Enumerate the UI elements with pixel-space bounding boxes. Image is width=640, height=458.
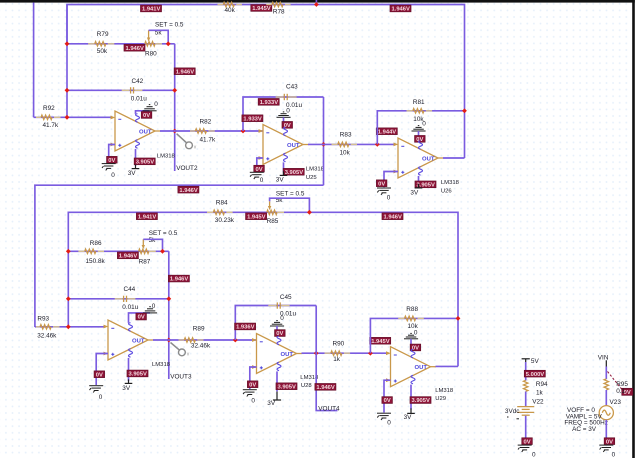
bias label 5.000V	[524, 370, 545, 378]
wire U29 output to feedback vertical	[436, 365, 459, 367]
svg-text:0V: 0V	[606, 439, 613, 445]
bias label 3.905V (U28 V-)	[276, 383, 297, 391]
svg-text:5k: 5k	[149, 237, 157, 244]
svg-text:0: 0	[280, 315, 284, 322]
ground 0 (s2op1 +input)	[89, 386, 103, 401]
svg-text:0: 0	[99, 394, 103, 401]
top window border	[0, 0, 635, 3]
node junction x67 R79 row	[65, 41, 70, 46]
node junction R88 right / feedback	[456, 316, 461, 321]
bias label 3.905V (U26 V-)	[415, 181, 436, 189]
wire s2op1 out to U28 row	[153, 339, 257, 341]
svg-text:C45: C45	[280, 294, 292, 301]
wire U25 V- to 3V	[283, 162, 285, 172]
svg-text:1.945V: 1.945V	[371, 339, 390, 345]
bias label 1.946V (row y185)	[178, 186, 199, 194]
wire op1 out to U25 row	[160, 130, 263, 132]
wire V23 middle	[605, 390, 607, 406]
wire stage2 input row y212	[68, 212, 458, 366]
svg-text:OUT: OUT	[287, 143, 300, 149]
svg-text:0V: 0V	[108, 158, 115, 164]
svg-text:150.8k: 150.8k	[86, 258, 106, 265]
svg-text:1.946V: 1.946V	[170, 277, 189, 283]
dashed bias pointer (VIN 0V)	[608, 372, 623, 390]
svg-text:0: 0	[286, 107, 290, 114]
resistor R92 41.7k	[36, 105, 61, 129]
node junction top wire	[314, 2, 319, 7]
svg-text:R84: R84	[216, 199, 228, 206]
voltage probe (VOUT3)	[171, 343, 190, 358]
bias label 1.945V (R88 tap)	[370, 337, 391, 345]
svg-text:R89: R89	[193, 326, 205, 333]
op-amp s2op1 LM318 (VOUT3 stage first)	[104, 320, 171, 368]
bias label 0V (V22)	[522, 438, 533, 446]
bias label 1.946V (vertical)	[174, 68, 195, 76]
svg-text:0: 0	[260, 177, 264, 184]
svg-text:1.945V: 1.945V	[252, 6, 271, 12]
power symbol 3V (U26 V-)	[410, 184, 422, 197]
wire C42 row	[67, 89, 175, 91]
node junction R87 wiper	[160, 249, 165, 254]
wire U25 +input to ground	[257, 158, 263, 172]
svg-text:1.946V: 1.946V	[176, 69, 195, 75]
power symbol 3V (U25 V-)	[276, 171, 288, 183]
svg-text:VOUT4: VOUT4	[318, 405, 340, 412]
bias label 0V (U28 +gnd)	[247, 381, 258, 389]
svg-text:R83: R83	[340, 132, 352, 139]
svg-text:0V: 0V	[416, 137, 423, 143]
wire V22 middle	[525, 392, 527, 407]
wire U26 V+	[418, 131, 420, 141]
svg-text:U25: U25	[306, 175, 318, 181]
svg-text:1.946V: 1.946V	[179, 188, 198, 194]
svg-text:0: 0	[422, 120, 426, 127]
wire feedback vertical x67	[66, 5, 68, 118]
power symbol 5V (V22 top)	[522, 358, 540, 365]
node junction R80 wiper	[166, 41, 171, 46]
wire R92 input row	[34, 116, 111, 118]
resistor R95 0.1 (vertical)	[604, 379, 628, 395]
wire op1 V- to 3V	[135, 149, 137, 166]
bias label 1.936V (on C45 vertical)	[235, 323, 256, 331]
svg-text:LM318: LM318	[435, 388, 454, 394]
svg-text:U29: U29	[435, 396, 446, 402]
resistor R89 32.46k	[179, 326, 211, 350]
svg-text:0: 0	[612, 451, 616, 458]
ground 0 (above s2op1 V+)	[143, 303, 157, 313]
svg-text:3.905V: 3.905V	[278, 384, 297, 390]
node junction x68 input row2	[66, 324, 71, 329]
svg-text:OUT: OUT	[132, 338, 145, 344]
bias label 3.905V (op1 V-)	[134, 158, 155, 166]
svg-text:0.01u: 0.01u	[131, 96, 147, 103]
bias label 0V (V23)	[604, 438, 615, 446]
op-amp U26 LM318	[394, 138, 460, 194]
wire U26 V- to 3V	[418, 176, 420, 185]
source V23 parameters	[564, 407, 608, 433]
svg-text:C42: C42	[132, 78, 144, 85]
net label VOUT4	[318, 405, 340, 412]
wire U26 +input to ground	[384, 172, 398, 188]
wire V22 bottom	[525, 416, 527, 440]
svg-text:SET = 0.5: SET = 0.5	[149, 230, 178, 237]
wire C43 left vertical	[243, 97, 324, 131]
svg-text:SET = 0.5: SET = 0.5	[155, 22, 184, 29]
wire s2op1 V- to 3V	[128, 358, 130, 381]
node junction x68 R86 row	[66, 249, 71, 254]
svg-text:0V: 0V	[138, 315, 145, 321]
right window border	[632, 0, 635, 458]
ground 0 (V22)	[518, 445, 536, 458]
net label VOUT2	[176, 165, 198, 172]
wire U29 V+	[410, 339, 412, 350]
bias label 1.945V (row y212)	[246, 213, 267, 221]
svg-text:3.905V: 3.905V	[285, 170, 304, 176]
op-amp U29 LM318	[386, 347, 454, 402]
svg-text:LM318: LM318	[441, 180, 460, 186]
bias label 1.946V (R79 row)	[124, 44, 145, 52]
svg-text:R80: R80	[145, 51, 157, 58]
bias label 0V (U29 V+)	[410, 344, 421, 352]
capacitor C44 0.01u	[115, 286, 139, 311]
svg-text:1k: 1k	[536, 389, 544, 396]
svg-text:R93: R93	[37, 316, 49, 323]
svg-text:VOUT2: VOUT2	[176, 165, 198, 172]
svg-text:1.941V: 1.941V	[138, 214, 157, 220]
wire U28 out to U29 row	[302, 352, 387, 354]
node junction R81 right / feedback	[462, 108, 467, 113]
wire R80 wiper loop	[149, 30, 169, 44]
wire R79 row	[67, 43, 175, 45]
node junction x68 C44 row	[66, 296, 71, 301]
bias label 1.946V (vertical x168.8)	[168, 275, 189, 283]
wire s2op1 +input to ground	[96, 354, 108, 386]
svg-text:3.905V: 3.905V	[412, 398, 431, 404]
ground 0 (U29 +input)	[377, 413, 391, 426]
svg-text:R88: R88	[406, 306, 418, 313]
svg-text:1.946V: 1.946V	[316, 385, 335, 391]
wire left input vertical	[33, 3, 35, 118]
node junction op1 output	[172, 129, 177, 134]
wire C44 row	[68, 298, 169, 300]
wire C45 right vertical and VOUT4 stub	[316, 306, 337, 411]
wire U28 +input to ground	[250, 367, 257, 389]
sine source V23	[599, 406, 613, 420]
wire R88 loop	[370, 318, 458, 353]
svg-text:3V: 3V	[267, 400, 276, 407]
ground 0 (U28 +input)	[243, 390, 257, 405]
svg-text:R92: R92	[43, 105, 55, 112]
wire op1 +input to ground	[109, 145, 115, 163]
net label VOUT3	[170, 374, 192, 381]
svg-text:3.905V: 3.905V	[129, 372, 148, 378]
svg-text:V23: V23	[610, 399, 622, 406]
svg-text:0V: 0V	[284, 123, 291, 129]
node junction R81 tap	[375, 142, 380, 147]
potentiometer R85 5k SET=0.5	[267, 190, 305, 225]
power symbol 3V (U28 V-)	[267, 392, 281, 407]
svg-text:0: 0	[532, 451, 536, 458]
svg-text:C44: C44	[124, 286, 136, 293]
svg-text:1.946V: 1.946V	[126, 46, 145, 52]
svg-text:5V: 5V	[531, 358, 540, 365]
svg-text:0V: 0V	[412, 346, 419, 352]
svg-text:3V: 3V	[404, 414, 413, 421]
wire V23 bottom	[605, 420, 607, 440]
wire U28 V- to 3V	[276, 371, 278, 391]
wire R93 input row	[35, 326, 104, 328]
svg-text:3V: 3V	[410, 189, 419, 196]
ground 0 (U25 +input)	[250, 172, 264, 184]
bias label 3.905V (s2op1 V-)	[127, 370, 148, 378]
svg-text:32.46k: 32.46k	[191, 343, 211, 350]
svg-text:R78: R78	[273, 8, 285, 15]
part label V23	[610, 399, 622, 406]
node junction R88 tap	[368, 351, 373, 356]
svg-text:1.941V: 1.941V	[142, 7, 161, 13]
wire U25 out to U26 row	[308, 143, 394, 145]
svg-text:1k: 1k	[333, 356, 341, 363]
svg-text:VOUT3: VOUT3	[170, 374, 192, 381]
wire U29 V- to 3V	[410, 385, 412, 410]
wire C45 left vertical	[235, 306, 316, 341]
wire s2op1 V+ jog to ground	[129, 313, 151, 323]
node junction R89/C45 tap	[233, 338, 238, 343]
wire U28 V+	[276, 326, 278, 336]
resistor 40k (top)	[218, 2, 242, 14]
svg-text:32.46k: 32.46k	[37, 332, 57, 339]
wire s2op1 output vertical x168.8	[168, 251, 170, 379]
node junction x67 input row	[65, 115, 70, 120]
ground 0 (U26 V+, inverted)	[412, 120, 427, 131]
ground 0 (above op1 V+)	[143, 101, 159, 111]
wire R86 row	[68, 250, 169, 252]
power symbol 3V (U29 V-)	[404, 408, 415, 421]
svg-text:R79: R79	[97, 31, 109, 38]
resistor R84 30.23k	[207, 199, 235, 224]
resistor R93 32.46k	[36, 316, 60, 340]
wire U25 V+	[283, 117, 285, 127]
bias label 0V (U29 +gnd)	[382, 397, 393, 405]
resistor R81 10k	[407, 99, 433, 123]
svg-text:R87: R87	[139, 259, 151, 266]
resistor R78	[266, 2, 290, 15]
svg-text:5.000V: 5.000V	[526, 372, 545, 378]
bias label 0V (U25 +gnd)	[254, 165, 264, 173]
svg-text:0V: 0V	[378, 181, 385, 187]
bias label 1.946V (R86 row)	[117, 252, 138, 260]
svg-text:3V: 3V	[128, 170, 137, 177]
wire stub above node on top wire	[315, 0, 317, 5]
svg-text:0: 0	[152, 303, 156, 310]
node junction x168.8 C44 row	[166, 296, 171, 301]
bias label 1.944V	[376, 128, 397, 135]
svg-text:LM318: LM318	[306, 167, 325, 173]
svg-text:3Vdc: 3Vdc	[505, 408, 520, 415]
bias label 0V (U25 V+)	[282, 122, 293, 130]
bias label 0V (U28 V+)	[275, 330, 286, 338]
wire stage2 output feedback (1.946V row)	[35, 185, 324, 327]
svg-text:1.946V: 1.946V	[119, 254, 138, 260]
svg-text:U26: U26	[441, 188, 453, 194]
bias label 0V (op1 +gnd)	[107, 156, 118, 164]
svg-text:R94: R94	[536, 381, 548, 388]
svg-text:0V: 0V	[96, 372, 103, 378]
ground 0 (U26 +input)	[377, 188, 391, 201]
svg-text:1.933V: 1.933V	[260, 100, 279, 106]
resistor R94 1k (vertical)	[524, 380, 549, 396]
svg-text:OUT: OUT	[422, 156, 435, 162]
bias label 0V (s2op1 +gnd)	[94, 371, 105, 379]
resistor R82 41.7k	[190, 119, 216, 144]
bias label 0V (VIN, right edge)	[622, 388, 633, 396]
svg-text:U28: U28	[301, 383, 313, 389]
svg-text:1.933V: 1.933V	[243, 116, 262, 122]
op-amp U28 LM318	[252, 334, 319, 390]
wire R85 wiper loop	[270, 198, 310, 212]
svg-text:R81: R81	[413, 99, 425, 106]
bias label 0V (s2op1 V+)	[136, 313, 147, 321]
svg-text:VIN: VIN	[598, 354, 609, 361]
bias label 1.941V	[141, 5, 162, 13]
voltage probe (VOUT2)	[177, 134, 197, 151]
wire U29 +input to ground	[384, 380, 391, 412]
svg-text:AC = 3V: AC = 3V	[572, 426, 597, 433]
svg-text:0: 0	[154, 101, 158, 108]
svg-text:1.946V: 1.946V	[384, 214, 403, 220]
ground 0 (op1 +input)	[102, 164, 116, 179]
ground 0 (V23)	[599, 445, 615, 458]
svg-text:0.01u: 0.01u	[122, 304, 138, 311]
bias label 0V (U26 +gnd)	[376, 180, 387, 188]
node junction U28 output / VOUT4	[314, 351, 319, 356]
svg-text:R82: R82	[200, 119, 212, 126]
svg-text:R95: R95	[616, 381, 628, 388]
svg-text:OUT: OUT	[415, 365, 428, 371]
svg-text:0: 0	[387, 194, 391, 201]
bias label 1.933V (on C43 vertical)	[242, 115, 263, 123]
bias label 1.945V (top)	[251, 5, 272, 13]
resistor R79 50k	[88, 31, 114, 55]
svg-text:3V: 3V	[122, 385, 131, 392]
bias label 0V (U26 V+)	[415, 136, 426, 144]
svg-text:1.946V: 1.946V	[392, 7, 411, 13]
wire op1 V+ jog to ground	[136, 111, 150, 114]
bias label 1.946V (row y212 right)	[382, 213, 403, 221]
svg-text:0V: 0V	[249, 382, 256, 388]
svg-text:R85: R85	[267, 218, 279, 225]
part label V22	[532, 399, 544, 406]
svg-text:R90: R90	[333, 340, 345, 347]
bias label 1.946V (top right)	[390, 5, 411, 13]
bias label 3.905V (U25 V-)	[283, 168, 304, 176]
wire R81 loop	[377, 111, 464, 145]
svg-text:10k: 10k	[340, 150, 351, 157]
bias label 0V (op1 V+)	[141, 112, 152, 120]
svg-text:OUT: OUT	[281, 352, 294, 358]
power symbol 3V (s2op1 V-)	[122, 379, 132, 391]
svg-text:0V: 0V	[384, 398, 391, 404]
ground 0 (U29 V+, inverted)	[404, 329, 418, 339]
node junction R85 wiper	[307, 210, 312, 215]
svg-text:C43: C43	[286, 84, 298, 91]
node junction x67 C42 row	[65, 88, 70, 93]
svg-text:41.7k: 41.7k	[43, 122, 59, 129]
svg-text:3.905V: 3.905V	[136, 160, 155, 166]
svg-text:0: 0	[111, 172, 115, 179]
bias label 1.941V (row y212)	[136, 213, 157, 221]
battery V22 3Vdc	[505, 407, 534, 419]
ground 0 (U25 V+, inverted)	[277, 107, 291, 117]
svg-text:0: 0	[387, 419, 391, 426]
wire top feedback net (1.946V)	[67, 5, 465, 159]
ground 0 (U28 V+, inverted)	[270, 315, 284, 326]
svg-text:0: 0	[414, 329, 418, 336]
svg-text:LM318: LM318	[152, 362, 171, 368]
resistor R88 10k	[398, 306, 424, 330]
node junction s2op1 output	[166, 338, 171, 343]
bias label 3.905V (U29 V-)	[410, 397, 431, 405]
svg-text:30.23k: 30.23k	[215, 217, 235, 224]
op-amp U?a LM318 (VOUT2 stage first)	[111, 111, 176, 160]
resistor R90 1k	[325, 340, 351, 363]
power symbol 3V (op1 V-)	[128, 165, 140, 178]
svg-text:50k: 50k	[97, 48, 108, 55]
wire C43 right vertical / U25 out feedback	[323, 97, 325, 185]
resistor R83 10k	[332, 132, 358, 157]
potentiometer R87 5k SET=0.5	[139, 230, 178, 266]
svg-text:41.7k: 41.7k	[200, 137, 216, 144]
svg-text:1.936V: 1.936V	[236, 325, 255, 331]
svg-text:R86: R86	[90, 240, 102, 247]
svg-text:1.945V: 1.945V	[247, 214, 266, 220]
svg-text:0: 0	[251, 397, 255, 404]
node junction R82/C43 tap	[241, 129, 246, 134]
resistor R86 150.8k	[78, 240, 105, 265]
svg-text:1.944V: 1.944V	[378, 129, 397, 135]
svg-text:LM318: LM318	[157, 154, 176, 160]
svg-text:V22: V22	[532, 399, 544, 406]
net label VIN	[598, 354, 609, 361]
op-amp U25 LM318	[259, 125, 325, 181]
capacitor C42 0.01u	[122, 78, 148, 103]
capacitor C45 0.01u	[268, 294, 296, 318]
svg-text:0V: 0V	[143, 113, 150, 119]
capacitor C43 0.01u	[276, 84, 303, 110]
svg-text:3V: 3V	[276, 177, 285, 184]
bias label 1.933V (C43 row)	[258, 99, 279, 107]
wire V22 top	[525, 362, 527, 381]
wire R87 wiper loop	[143, 239, 162, 251]
node junction x174.7 C42 row	[172, 88, 177, 93]
wire op1 output vertical x174.7	[174, 44, 176, 171]
bias label 1.946V (VOUT4)	[315, 384, 336, 392]
svg-text:OUT: OUT	[139, 129, 152, 135]
wire U26 output to feedback vertical	[443, 157, 465, 159]
svg-text:40k: 40k	[225, 7, 236, 14]
svg-text:0.1: 0.1	[616, 388, 625, 395]
wire VIN vertical	[605, 360, 607, 379]
node junction U25 output	[321, 142, 326, 147]
potentiometer R80 5k SET=0.5	[145, 22, 184, 58]
svg-text:0V: 0V	[524, 439, 531, 445]
